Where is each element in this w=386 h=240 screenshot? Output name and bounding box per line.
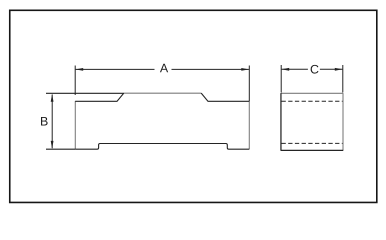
side view: right body edge (gray) — [248, 101, 250, 149]
dimension C: line right segment — [320, 68, 343, 70]
dimension B: bottom arrowhead — [51, 141, 54, 149]
side view: left shoulder + rising chamfer (black) — [75, 93, 124, 101]
end view: lower hidden (dashed) line — [282, 142, 343, 144]
end view: top edge (gray) — [281, 92, 343, 94]
dimension A: line right segment — [172, 68, 249, 70]
dimension A: right extension line — [248, 66, 250, 102]
end view: upper hidden (dashed) line — [282, 100, 343, 102]
end view: bottom edge (black) — [281, 149, 344, 151]
side view: falling chamfer + right shoulder (black) — [201, 93, 249, 101]
side view: bottom profile with terminal feet (black) — [75, 144, 249, 150]
end view: left edge (black) — [280, 93, 282, 150]
side view: left body edge (gray) — [74, 101, 76, 149]
dimension A: left arrowhead — [75, 68, 83, 71]
drawing frame border — [10, 10, 377, 202]
dimension B: top arrowhead — [51, 94, 54, 102]
dimension C: right extension line — [342, 65, 344, 93]
dimension B: top extension line (at plateau level) — [46, 92, 124, 94]
dimension B: vertical arrow line — [51, 95, 53, 149]
dimension A: label A — [160, 64, 168, 73]
end view: right edge (gray) — [342, 93, 344, 150]
dimension A: right arrowhead — [241, 68, 249, 71]
side view: top plateau (gray) — [124, 92, 201, 94]
dimension C: right arrowhead — [335, 68, 343, 71]
dimension C: line left segment — [282, 68, 308, 70]
dimension A: left extension line — [74, 66, 76, 96]
dimension B: label B — [41, 117, 48, 126]
dimension C: left arrowhead — [281, 68, 289, 71]
dimension C: label C — [311, 65, 319, 74]
dimension A: line left segment — [76, 68, 155, 70]
dimension C: left extension line — [280, 65, 282, 93]
dimension B: bottom extension line — [46, 148, 75, 150]
